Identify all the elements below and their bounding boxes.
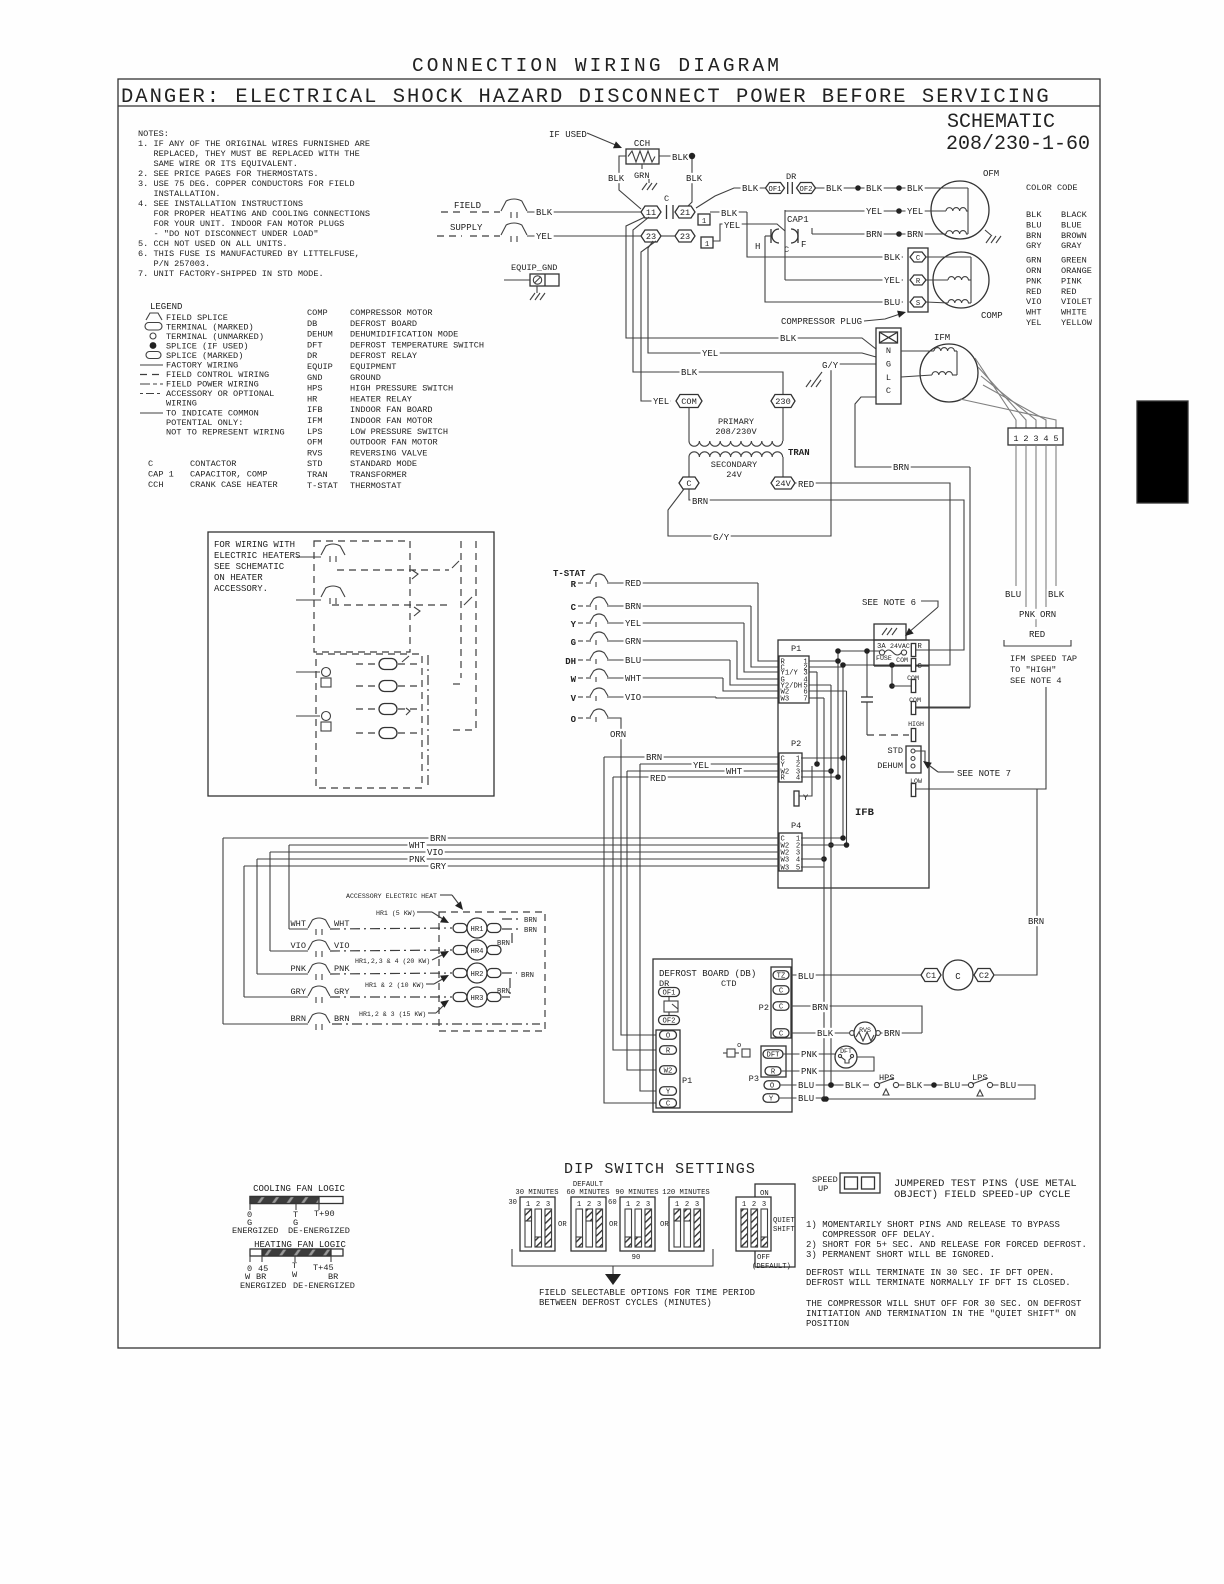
svg-text:PINK: PINK [1061, 276, 1082, 286]
svg-text:YEL: YEL [724, 221, 740, 231]
GRY splice feed [244, 996, 308, 998]
svg-text:HR2: HR2 [471, 971, 484, 979]
Y terminal [763, 1094, 779, 1104]
svg-text:7: 7 [803, 696, 807, 704]
IFM tap wire 1 [975, 358, 1016, 428]
svg-text:RED: RED [1029, 630, 1045, 640]
svg-text:2: 2 [636, 1201, 640, 1209]
terminal 24V [771, 477, 795, 489]
svg-text:1. IF ANY OF THE ORIGINAL WIRE: 1. IF ANY OF THE ORIGINAL WIRES FURNISHE… [138, 139, 370, 149]
svg-text:EQUIPMENT: EQUIPMENT [350, 362, 396, 372]
selection bracket [512, 1249, 713, 1266]
field splice (YEL supply) [501, 223, 527, 242]
svg-text:RVS: RVS [859, 1027, 871, 1034]
svg-text:BLK: BLK [866, 184, 883, 194]
svg-text:G: G [886, 359, 891, 369]
svg-text:DEFROST BOARD: DEFROST BOARD [350, 319, 417, 329]
svg-text:O: O [666, 1033, 670, 1041]
svg-text:YEL: YEL [702, 349, 718, 359]
svg-text:YEL: YEL [625, 619, 641, 629]
svg-text:IFM SPEED TAP: IFM SPEED TAP [1010, 654, 1077, 664]
svg-text:BLK: BLK [884, 253, 901, 263]
BRN dashed bottom [332, 1023, 540, 1025]
svg-text:Y: Y [803, 793, 808, 803]
svg-text:VIO: VIO [427, 848, 443, 858]
svg-text:5. CCH NOT USED ON ALL UNITS.: 5. CCH NOT USED ON ALL UNITS. [138, 239, 288, 249]
GRY riser [243, 866, 245, 997]
C pin vertical wire (YEL) [784, 210, 786, 280]
svg-text:BLK: BLK [742, 184, 759, 194]
heater relay HR4 [453, 946, 467, 955]
svg-text:W: W [571, 675, 577, 685]
BRN dashed interconnects [502, 918, 520, 920]
svg-text:2: 2 [587, 1201, 591, 1209]
svg-text:ELECTRIC HEATERS: ELECTRIC HEATERS [214, 551, 300, 561]
svg-text:THE COMPRESSOR WILL SHUT OFF F: THE COMPRESSOR WILL SHUT OFF FOR 30 SEC.… [806, 1299, 1082, 1309]
svg-text:BROWN: BROWN [1061, 231, 1087, 241]
YEL wire to P2 pin2, down to DB Y [640, 763, 779, 765]
svg-text:INSTALLATION.: INSTALLATION. [138, 189, 221, 199]
svg-text:C: C [955, 972, 961, 982]
VIO dashed to HR4 [330, 950, 452, 951]
svg-text:4: 4 [1043, 434, 1048, 444]
splice symbol 2 [321, 586, 345, 604]
legend: field control wiring [140, 374, 163, 376]
svg-text:R: R [916, 278, 921, 286]
grouping bracket [1004, 640, 1071, 646]
svg-text:GREEN: GREEN [1061, 256, 1087, 266]
svg-text:RED: RED [650, 774, 666, 784]
svg-text:OR: OR [558, 1221, 567, 1229]
svg-text:4: 4 [796, 857, 800, 865]
IFM tap wire 2 [978, 367, 1026, 428]
svg-text:11: 11 [646, 208, 656, 218]
svg-text:DEHUMIDIFICATION MODE: DEHUMIDIFICATION MODE [350, 330, 458, 340]
svg-text:R: R [771, 1069, 776, 1077]
svg-text:CTD: CTD [721, 979, 736, 989]
svg-text:OFM: OFM [307, 438, 322, 448]
svg-text:Y: Y [571, 620, 577, 630]
WHT wire to P2 pin3, down to DB W2 [627, 770, 779, 772]
OFM ground [986, 236, 1001, 243]
svg-text:TO INDICATE COMMON: TO INDICATE COMMON [166, 409, 259, 419]
svg-text:VIO: VIO [291, 941, 306, 951]
svg-text:DFT: DFT [307, 340, 322, 350]
DFT defrost thermostat [783, 1053, 835, 1055]
svg-text:PNK: PNK [1026, 276, 1042, 286]
DR contact OF1 [766, 183, 785, 195]
terminal COM [676, 395, 702, 408]
fuse element [879, 650, 884, 655]
svg-text:YEL: YEL [653, 397, 669, 407]
svg-text:YEL: YEL [907, 207, 923, 217]
svg-text:P4: P4 [791, 821, 801, 831]
lower dashed section [316, 654, 422, 788]
svg-text:WHITE: WHITE [1061, 308, 1087, 318]
svg-text:23: 23 [680, 232, 690, 242]
svg-text:3. USE 75 DEG. COPPER CONDUCTO: 3. USE 75 DEG. COPPER CONDUCTORS FOR FIE… [138, 179, 355, 189]
svg-text:WHT: WHT [1026, 308, 1041, 318]
svg-text:24VAC: 24VAC [890, 643, 910, 650]
svg-text:C: C [664, 194, 669, 204]
splice [896, 208, 902, 214]
Y jumper [794, 791, 799, 806]
ORN wire from O down to defrost board O [607, 718, 656, 1035]
svg-text:HR4: HR4 [471, 948, 484, 956]
svg-text:G/Y: G/Y [713, 533, 730, 543]
fuse feed line [838, 650, 880, 652]
svg-text:IFB: IFB [307, 405, 322, 415]
svg-text:ORN: ORN [1040, 610, 1056, 620]
svg-text:DEFROST RELAY: DEFROST RELAY [350, 351, 417, 361]
svg-text:BLK: BLK [826, 184, 843, 194]
wire GRN from T-STAT G to P1 [607, 640, 737, 642]
O terminal [764, 1081, 780, 1091]
svg-text:EQUIP: EQUIP [307, 362, 333, 372]
wire 11 to BLK row (230) [633, 217, 783, 396]
BRN wire P2-C [791, 1006, 922, 1033]
svg-text:DEFROST BOARD (DB): DEFROST BOARD (DB) [659, 969, 756, 979]
svg-text:CAPACITOR, COMP: CAPACITOR, COMP [190, 470, 267, 480]
BLU wire TZ to contactor [791, 974, 921, 976]
svg-text:HIGH: HIGH [908, 721, 924, 728]
DR contact OF2 [797, 183, 816, 195]
svg-text:P1: P1 [682, 1076, 692, 1086]
svg-text:CCH: CCH [634, 139, 650, 149]
svg-text:SCHEMATIC: SCHEMATIC [947, 111, 1055, 134]
legend: field power wiring [140, 383, 163, 385]
svg-text:IFM: IFM [934, 333, 950, 343]
svg-text:GRY: GRY [334, 987, 349, 997]
svg-text:YEL: YEL [866, 207, 882, 217]
svg-text:HR1 (5 KW): HR1 (5 KW) [376, 910, 416, 917]
svg-text:SEE SCHEMATIC: SEE SCHEMATIC [214, 562, 285, 572]
svg-text:24V: 24V [775, 479, 791, 489]
svg-text:DEFROST TEMPERATURE SWITCH: DEFROST TEMPERATURE SWITCH [350, 340, 484, 350]
wire BLK supply to terminal 11 [527, 211, 642, 213]
svg-text:STD: STD [888, 746, 903, 756]
riser W3 long [823, 698, 825, 1099]
svg-text:L: L [886, 373, 891, 383]
svg-text:BLK: BLK [536, 208, 553, 218]
svg-text:90 MINUTES: 90 MINUTES [615, 1189, 658, 1197]
svg-text:BLU: BLU [1026, 220, 1041, 230]
svg-text:30: 30 [508, 1199, 517, 1207]
BRN splice feed [223, 1023, 308, 1025]
svg-text:SPLICE (MARKED): SPLICE (MARKED) [166, 351, 243, 361]
svg-text:OF1: OF1 [769, 186, 782, 194]
svg-text:HR1 & 2 (10 KW): HR1 & 2 (10 KW) [365, 982, 424, 989]
svg-text:RED: RED [798, 480, 814, 490]
svg-text:BLK: BLK [817, 1029, 834, 1039]
plug terminal R [910, 275, 926, 286]
plug keying box [880, 332, 898, 343]
svg-text:STD: STD [307, 459, 322, 469]
WHT riser [288, 845, 290, 929]
svg-text:BLK: BLK [681, 368, 698, 378]
svg-text:BLU: BLU [944, 1081, 960, 1091]
svg-text:T+90: T+90 [314, 1209, 335, 1219]
terminal 21 [675, 206, 695, 218]
wire BLU from T-STAT DH to P1 [607, 659, 730, 661]
svg-text:GRN: GRN [634, 171, 649, 181]
svg-text:DFT: DFT [840, 1048, 852, 1055]
splice [855, 185, 861, 191]
tap wire 2 below strip [1025, 445, 1027, 607]
svg-text:HPS: HPS [307, 384, 322, 394]
svg-text:C: C [779, 1004, 784, 1012]
svg-text:TRAN: TRAN [307, 470, 328, 480]
svg-text:BRN: BRN [692, 497, 708, 507]
svg-text:R: R [666, 1048, 671, 1056]
svg-text:BLK: BLK [780, 334, 797, 344]
svg-text:COMPRESSOR PLUG: COMPRESSOR PLUG [781, 317, 862, 327]
svg-text:BETWEEN DEFROST CYCLES (MINUTE: BETWEEN DEFROST CYCLES (MINUTES) [539, 1298, 712, 1308]
svg-text:PNK: PNK [801, 1050, 818, 1060]
P1 pin2 stub [809, 666, 843, 668]
OFM internal wiring [927, 187, 968, 189]
svg-text:PNK: PNK [801, 1067, 818, 1077]
svg-text:3: 3 [1033, 434, 1038, 444]
svg-text:STANDARD MODE: STANDARD MODE [350, 459, 417, 469]
svg-text:N: N [886, 346, 891, 356]
svg-text:BRN: BRN [524, 917, 537, 925]
oval contacts [379, 659, 397, 670]
svg-text:BRN: BRN [907, 230, 923, 240]
svg-text:HR1,2,3 & 4 (20 KW): HR1,2,3 & 4 (20 KW) [355, 958, 430, 965]
splice [896, 185, 902, 191]
electric heaters info box [208, 532, 494, 796]
riser W2/DH long [830, 685, 832, 1085]
svg-text:C2: C2 [979, 971, 989, 981]
PNK splice feed [257, 973, 308, 975]
svg-text:OFF: OFF [757, 1254, 770, 1262]
C pin line [843, 664, 912, 666]
svg-text:TO "HIGH": TO "HIGH" [1010, 665, 1056, 675]
C riser [842, 665, 844, 838]
speed tap wire to IFB LOW [916, 687, 1046, 789]
svg-text:C: C [779, 988, 784, 996]
OFM winding 2 [946, 231, 966, 234]
terminal C (24v common) [679, 477, 699, 489]
svg-text:90: 90 [632, 1254, 641, 1262]
CCH left wire BLK down to terminal 11 [619, 156, 641, 209]
svg-text:POTENTIAL ONLY:: POTENTIAL ONLY: [166, 418, 243, 428]
svg-text:W3: W3 [781, 865, 790, 873]
svg-text:BRN: BRN [893, 463, 909, 473]
svg-text:1: 1 [626, 1201, 630, 1209]
svg-text:HPS: HPS [879, 1073, 894, 1083]
RVS reversing valve [791, 1032, 850, 1034]
svg-text:T-STAT: T-STAT [307, 481, 338, 491]
svg-text:FOR PROPER HEATING AND COOLING: FOR PROPER HEATING AND COOLING CONNECTIO… [138, 209, 370, 219]
svg-text:IFB: IFB [855, 807, 875, 819]
WHT wire to P4 [289, 844, 779, 846]
svg-text:DIP SWITCH SETTINGS: DIP SWITCH SETTINGS [564, 1161, 756, 1178]
P1/P2/P4 risers [809, 671, 817, 673]
svg-text:COMPRESSOR OFF DELAY.: COMPRESSOR OFF DELAY. [806, 1230, 936, 1240]
svg-text:OFM: OFM [983, 169, 999, 179]
legend: field splice symbol [146, 313, 162, 320]
wire YEL from T-STAT Y to P1 [607, 622, 744, 624]
legend: accessory or optional wiring [140, 393, 163, 395]
splice symbol 1 [321, 544, 345, 562]
svg-text:DEFROST WILL TERMINATE NORMALL: DEFROST WILL TERMINATE NORMALLY IF DFT I… [806, 1278, 1071, 1288]
svg-text:Y: Y [666, 1089, 671, 1097]
svg-text:CRANK CASE HEATER: CRANK CASE HEATER [190, 480, 278, 490]
contactor C1 [921, 969, 941, 982]
svg-text:BLK: BLK [907, 184, 924, 194]
svg-text:FIELD POWER WIRING: FIELD POWER WIRING [166, 380, 259, 390]
svg-text:LOW PRESSURE SWITCH: LOW PRESSURE SWITCH [350, 427, 448, 437]
RED wire 24V to IFB C pin [795, 483, 950, 665]
splice square 1 (bottom) [701, 237, 713, 248]
terminal 23 (right) [675, 230, 695, 242]
PNK wire P3-R to DFT [781, 1057, 874, 1071]
svg-text:ACCESSORY ELECTRIC HEAT: ACCESSORY ELECTRIC HEAT [346, 893, 437, 900]
svg-text:BLU: BLU [884, 298, 900, 308]
svg-text:1: 1 [742, 1201, 746, 1209]
svg-text:DEHUM: DEHUM [877, 761, 903, 771]
svg-text:BRN: BRN [334, 1014, 349, 1024]
COMP winding 2 [948, 300, 968, 303]
OF2 terminal [659, 1016, 680, 1026]
svg-text:COM: COM [896, 657, 908, 664]
svg-text:BRN: BRN [497, 988, 510, 996]
border frame [118, 79, 1100, 1348]
wire BRN from T-STAT C to P1 [607, 605, 751, 607]
BLK wire sq1 to vertical [710, 211, 747, 213]
svg-text:GRN: GRN [625, 637, 641, 647]
svg-text:3: 3 [546, 1201, 550, 1209]
wire LPS around to Y row [826, 1085, 1035, 1099]
P4 pin2 stub [801, 844, 847, 846]
svg-text:ORN: ORN [1026, 266, 1041, 276]
COMP winding 1 [948, 277, 968, 280]
svg-text:IFM: IFM [307, 416, 322, 426]
IFM winding 1 [934, 348, 954, 351]
svg-text:G/Y: G/Y [822, 361, 839, 371]
svg-text:CONNECTION WIRING DIAGRAM: CONNECTION WIRING DIAGRAM [412, 55, 782, 77]
svg-text:3) PERMANENT SHORT WILL BE IGN: 3) PERMANENT SHORT WILL BE IGNORED. [806, 1250, 995, 1260]
svg-text:C: C [779, 1031, 784, 1039]
VIO splice feed [270, 950, 308, 952]
OFM winding 1 [946, 208, 966, 211]
CCH ground [642, 183, 657, 190]
svg-text:1: 1 [577, 1201, 581, 1209]
svg-text:BRN: BRN [521, 972, 534, 980]
terminal 11 [641, 206, 661, 218]
svg-text:P3: P3 [749, 1074, 759, 1084]
svg-text:DB: DB [307, 319, 317, 329]
P4 pin1 stub [801, 837, 843, 839]
svg-text:R: R [918, 643, 923, 651]
svg-text:FOR YOUR UNIT. INDOOR FAN MOTO: FOR YOUR UNIT. INDOOR FAN MOTOR PLUGS [138, 219, 344, 229]
svg-text:WHT: WHT [625, 674, 642, 684]
svg-text:NOTES:: NOTES: [138, 129, 169, 139]
svg-text:60: 60 [608, 1199, 617, 1207]
GRY wire to P4 [244, 865, 779, 867]
svg-text:FOR WIRING WITH: FOR WIRING WITH [214, 540, 295, 550]
heater relay HR2 [453, 969, 467, 978]
svg-text:DEFROST WILL TERMINATE IN 30 S: DEFROST WILL TERMINATE IN 30 SEC. IF DFT… [806, 1268, 1054, 1278]
svg-text:o: o [737, 1042, 741, 1050]
IFB box [778, 640, 929, 888]
BLK wire from splice down to terminal 21 [687, 159, 692, 207]
svg-text:2) SHORT FOR 5+ SEC. AND RELEA: 2) SHORT FOR 5+ SEC. AND RELEASE FOR FOR… [806, 1240, 1087, 1250]
CCH GRN pin to ground [641, 164, 643, 169]
page tab (black) [1137, 401, 1188, 503]
svg-text:RED: RED [1026, 287, 1041, 297]
capacitor on R line [866, 651, 868, 697]
svg-text:Y: Y [769, 1096, 774, 1104]
CCH right wire BLK to splice dot [659, 155, 688, 157]
svg-text:DANGER: ELECTRICAL SHOCK HAZAR: DANGER: ELECTRICAL SHOCK HAZARD DISCONNE… [121, 86, 1051, 109]
fuse compartment [873, 640, 875, 666]
svg-text:WHT: WHT [334, 919, 349, 929]
svg-text:TRANSFORMER: TRANSFORMER [350, 470, 407, 480]
svg-text:W: W [292, 1270, 298, 1280]
svg-text:C: C [571, 603, 577, 613]
R pin [911, 644, 915, 657]
svg-text:CAP 1: CAP 1 [148, 470, 174, 480]
YEL wire to OFM [785, 210, 941, 212]
danger banner [118, 105, 1100, 107]
BRN riser [222, 838, 224, 1024]
svg-text:C1: C1 [926, 971, 936, 981]
svg-text:BLK: BLK [845, 1081, 862, 1091]
svg-text:P1: P1 [791, 644, 801, 654]
svg-text:P2: P2 [791, 739, 801, 749]
COMP motor circle [933, 252, 989, 308]
svg-text:- "DO NOT DISCONNECT UNDER LOA: - "DO NOT DISCONNECT UNDER LOAD" [138, 229, 319, 239]
svg-text:OUTDOOR FAN MOTOR: OUTDOOR FAN MOTOR [350, 438, 438, 448]
svg-text:BLK: BLK [1048, 590, 1065, 600]
svg-text:LPS: LPS [307, 427, 322, 437]
svg-text:DFT: DFT [767, 1052, 781, 1060]
NGLC plug box [876, 328, 901, 404]
svg-text:EQUIP_GND: EQUIP_GND [511, 263, 557, 273]
svg-text:GND: GND [307, 373, 322, 383]
svg-text:HR1,2 & 3 (15 KW): HR1,2 & 3 (15 KW) [359, 1011, 426, 1018]
svg-text:INDOOR FAN BOARD: INDOOR FAN BOARD [350, 405, 433, 415]
DEFROST BOARD box [653, 959, 792, 1112]
svg-text:VIO: VIO [625, 693, 641, 703]
field splice VIO [308, 940, 330, 957]
splice square 1 (top) [698, 214, 710, 225]
svg-text:OBJECT) FIELD SPEED-UP CYCLE: OBJECT) FIELD SPEED-UP CYCLE [894, 1189, 1070, 1201]
BLU/BLK wire O terminal through HPS [780, 1084, 869, 1086]
svg-text:BLUE: BLUE [1061, 220, 1082, 230]
terminal 230 [771, 395, 795, 408]
svg-text:CONTACTOR: CONTACTOR [190, 459, 236, 469]
heater relay HR3 [453, 993, 467, 1002]
svg-text:SEE NOTE 7: SEE NOTE 7 [957, 769, 1011, 779]
svg-text:BLK: BLK [721, 209, 738, 219]
svg-text:1: 1 [702, 218, 706, 226]
svg-text:ENERGIZED: ENERGIZED [240, 1281, 286, 1291]
svg-text:THERMOSTAT: THERMOSTAT [350, 481, 402, 491]
svg-text:COLOR CODE: COLOR CODE [1026, 183, 1078, 193]
COMP internal wiring [926, 256, 971, 258]
svg-text:LEGEND: LEGEND [150, 302, 182, 312]
svg-text:GRN: GRN [1026, 256, 1041, 266]
svg-text:3: 3 [695, 1201, 699, 1209]
svg-text:BLU: BLU [798, 1094, 814, 1104]
svg-text:3: 3 [646, 1201, 650, 1209]
svg-text:1: 1 [705, 241, 709, 249]
svg-text:5: 5 [1053, 434, 1058, 444]
